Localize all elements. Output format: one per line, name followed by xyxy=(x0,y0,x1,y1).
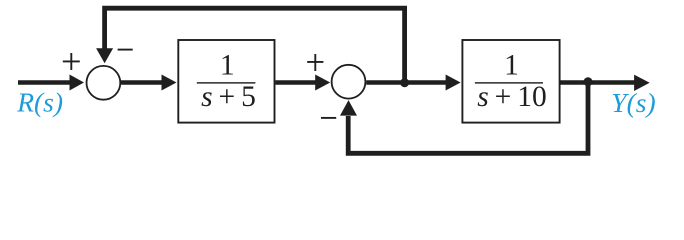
svg-text:R(s): R(s) xyxy=(16,87,63,118)
svg-text:s + 5: s + 5 xyxy=(201,81,256,113)
svg-text:1: 1 xyxy=(220,50,235,82)
svg-text:Y(s): Y(s) xyxy=(611,87,655,118)
svg-text:1: 1 xyxy=(504,50,519,82)
svg-text:s + 10: s + 10 xyxy=(477,81,546,113)
